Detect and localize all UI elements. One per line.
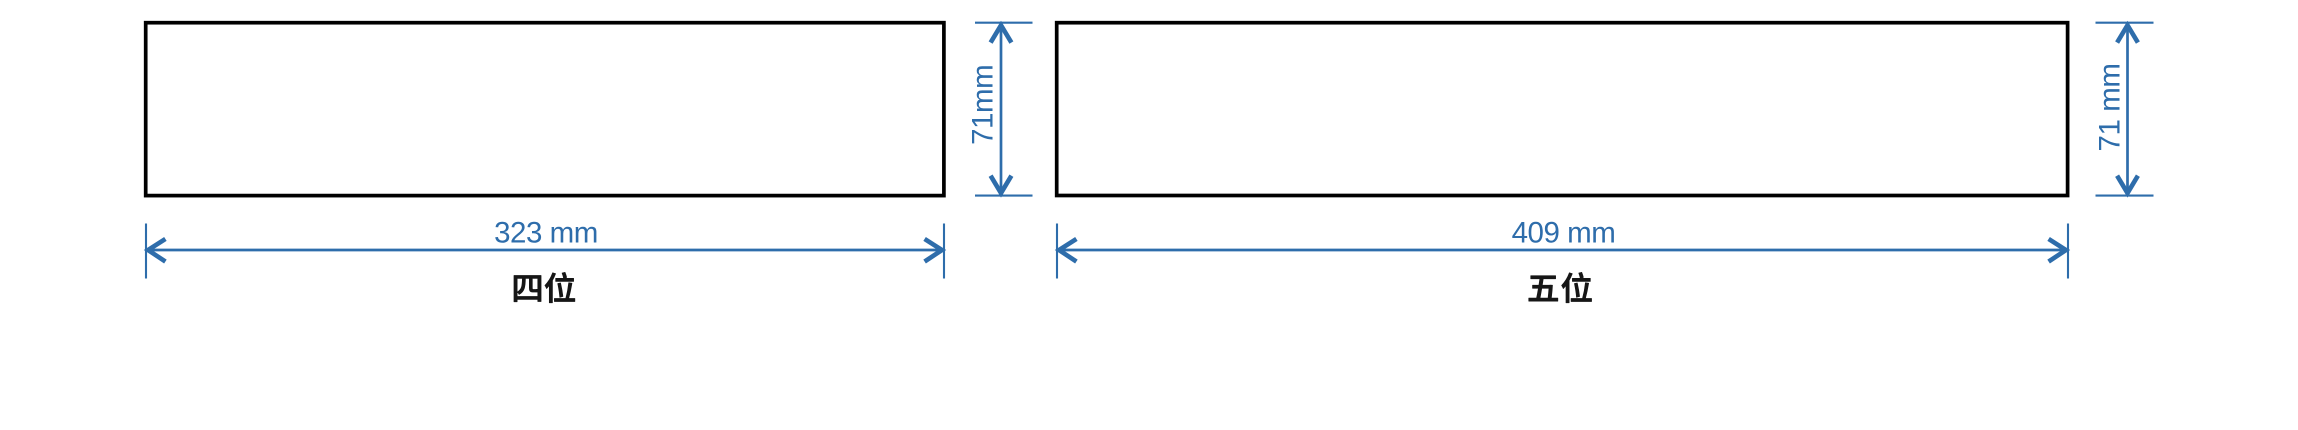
dimension: width 409 mm, extension tick right: [2067, 224, 2069, 279]
dimension: width 323 mm, extension tick left: [145, 224, 147, 279]
dimension: height 71mm (between panels), main line: [1000, 23, 1003, 195]
svg-text:409 mm: 409 mm: [1512, 217, 1616, 250]
dimension: width 409 mm, left arrowhead: [1059, 239, 1076, 262]
dimension: height 71 mm (right of five-unit panel), bottom tick: [2096, 195, 2154, 197]
dimension: width 409 mm, right arrowhead: [2049, 239, 2066, 262]
svg-text:323 mm: 323 mm: [494, 217, 598, 250]
rectangle: five-unit panel outline: [1057, 23, 2068, 196]
dimension: width 409 mm, extension tick left: [1056, 224, 1058, 279]
dimension: width 323 mm, left arrowhead: [148, 239, 165, 262]
dimension: width 323 mm, extension tick right: [943, 224, 945, 279]
svg-text:71 mm: 71 mm: [2094, 64, 2127, 152]
dimension: height 71 mm (right of five-unit panel), bottom arrowhead: [2117, 176, 2138, 193]
dimension: height 71 mm (right of five-unit panel), main line: [2126, 23, 2129, 195]
dimension: height 71 mm (right of five-unit panel), top tick: [2096, 22, 2154, 24]
label: 四 (four): [514, 275, 541, 301]
dimension: height 71mm (between panels), bottom arrowhead: [991, 176, 1012, 193]
dimension: width 323 mm, main line: [147, 249, 944, 252]
dimension: height 71mm (between panels), top arrowhead: [991, 25, 1012, 42]
label: 位 (position, second): [1562, 272, 1592, 302]
rectangle: four-unit panel outline: [146, 23, 944, 196]
dimension: width 409 mm, main line: [1058, 249, 2068, 252]
label: 位 (position): [545, 272, 575, 302]
dimension: height 71mm (between panels), bottom tick: [975, 195, 1033, 197]
svg-text:71mm: 71mm: [967, 65, 1000, 145]
label: 五 (five): [1529, 276, 1558, 301]
dimension: width 323 mm, right arrowhead: [925, 239, 942, 262]
dimension: height 71mm (between panels), top tick: [975, 22, 1033, 24]
dimension: height 71 mm (right of five-unit panel), top arrowhead: [2117, 25, 2138, 42]
